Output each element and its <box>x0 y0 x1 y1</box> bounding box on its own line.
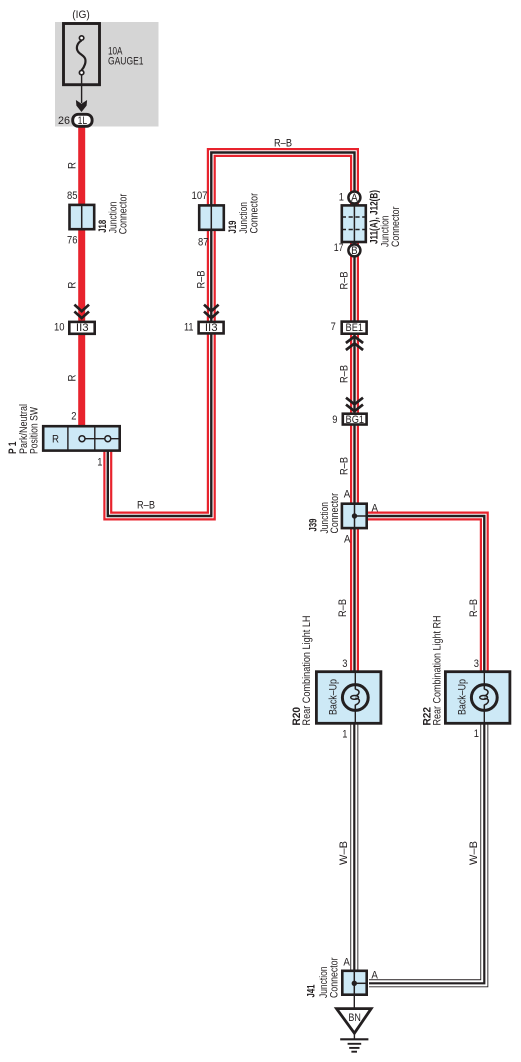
svg-text:A: A <box>343 957 350 969</box>
svg-text:A: A <box>371 970 378 982</box>
back-up bulb LH <box>342 685 368 711</box>
svg-text:1: 1 <box>339 192 344 204</box>
svg-text:85: 85 <box>67 190 78 202</box>
svg-text:3: 3 <box>474 658 479 670</box>
svg-text:R: R <box>66 374 78 381</box>
wire R-B branch: J39 pin A to R22 pin 3 <box>355 516 485 675</box>
svg-text:GAUGE1: GAUGE1 <box>108 56 144 68</box>
svg-text:J39: J39 <box>308 519 320 532</box>
rear combination light RH R22 <box>445 672 510 724</box>
svg-text:R: R <box>52 434 59 446</box>
svg-text:R–B: R–B <box>137 499 155 511</box>
svg-text:R–B: R–B <box>337 599 349 617</box>
svg-text:W–B: W–B <box>338 841 350 865</box>
junction connector J18 <box>70 205 95 229</box>
svg-text:17: 17 <box>334 242 344 254</box>
svg-text:R–B: R–B <box>339 365 351 383</box>
svg-text:87: 87 <box>198 237 209 249</box>
switch contacts P1 <box>79 436 85 442</box>
connector oval 1L <box>73 114 92 126</box>
svg-text:26: 26 <box>58 115 70 127</box>
svg-text:R: R <box>67 282 79 289</box>
svg-text:A: A <box>372 503 379 515</box>
wire W-B: R22 pin 1 to J41 pin A <box>369 722 484 983</box>
svg-text:Connector: Connector <box>248 193 260 234</box>
ground symbol <box>340 1038 368 1040</box>
junction dot J41 <box>352 981 357 986</box>
svg-text:II3: II3 <box>76 322 89 334</box>
chevron arrows into BG1 <box>346 398 363 405</box>
svg-text:A: A <box>344 534 351 546</box>
svg-text:Connector: Connector <box>390 206 402 247</box>
park/neutral position switch P1 <box>43 426 120 450</box>
svg-text:Connector: Connector <box>328 957 340 998</box>
svg-text:Back–Up: Back–Up <box>328 679 340 715</box>
junction dot J39 <box>352 513 357 518</box>
svg-text:II3: II3 <box>205 322 218 334</box>
svg-text:1: 1 <box>97 457 102 469</box>
svg-text:A: A <box>351 192 358 204</box>
svg-text:10: 10 <box>54 322 65 334</box>
svg-text:7: 7 <box>331 321 336 333</box>
wire J41 to ground triangle BN <box>353 995 355 1009</box>
svg-text:BE1: BE1 <box>346 322 364 334</box>
wire R-B: P1 pin 1, bottom run, up through J19 to top run, down through J11 to R20 pin 3 <box>108 153 355 676</box>
svg-text:107: 107 <box>192 190 208 202</box>
svg-text:R: R <box>67 162 79 169</box>
connector circle B J12 <box>348 244 360 256</box>
svg-text:9: 9 <box>332 414 337 426</box>
connector II3 middle <box>199 322 224 334</box>
svg-text:76: 76 <box>67 234 78 246</box>
chevron arrows into II3 pin 10 <box>74 305 89 312</box>
junction connector J11/J12 <box>342 205 366 242</box>
svg-text:R–B: R–B <box>339 272 351 290</box>
wire fuse to connector 1L with arrowhead <box>81 75 83 103</box>
svg-text:1L: 1L <box>78 115 88 127</box>
wire R solid red: fuse 1L to P1 pin 2 <box>78 120 85 427</box>
svg-text:Connector: Connector <box>118 193 130 234</box>
junction connector J19 <box>199 205 224 229</box>
svg-text:2: 2 <box>71 411 76 423</box>
svg-text:A: A <box>344 489 351 501</box>
ground triangle BN <box>337 1009 372 1034</box>
svg-text:R–B: R–B <box>468 599 480 617</box>
rear combination light LH R20 <box>316 672 381 724</box>
svg-text:R–B: R–B <box>196 271 208 289</box>
connector II3 left <box>69 322 94 334</box>
connector BE1 <box>342 322 367 334</box>
svg-text:Position SW: Position SW <box>29 407 41 454</box>
wire triangle to ground <box>353 1033 355 1039</box>
svg-text:Back–Up: Back–Up <box>457 679 469 715</box>
svg-text:BN: BN <box>348 1012 361 1024</box>
ignition source gray block <box>55 22 159 127</box>
svg-text:Rear Combination Light RH: Rear Combination Light RH <box>432 615 444 725</box>
svg-text:W–B: W–B <box>468 841 480 865</box>
back-up bulb RH <box>471 685 497 711</box>
svg-text:BG1: BG1 <box>346 414 365 426</box>
chevron arrows into II3 pin 11 <box>204 305 219 312</box>
svg-text:3: 3 <box>342 658 347 670</box>
svg-text:R–B: R–B <box>274 138 292 150</box>
svg-text:11: 11 <box>184 322 194 334</box>
fuse 10A GAUGE1 <box>64 24 100 85</box>
chevron arrows up out of BE1 <box>346 336 363 343</box>
svg-text:Connector: Connector <box>329 493 341 534</box>
svg-text:B: B <box>351 245 358 257</box>
svg-text:1: 1 <box>474 728 479 740</box>
junction connector J39 <box>342 504 367 528</box>
connector circle A J11 <box>348 192 360 204</box>
connector BG1 <box>343 414 367 425</box>
svg-text:R–B: R–B <box>339 457 351 475</box>
svg-text:J41: J41 <box>306 985 318 998</box>
junction connector J41 <box>342 971 366 995</box>
svg-text:(IG): (IG) <box>72 9 90 21</box>
wire W-B: R20 pin 1 to J41 pin A <box>350 722 358 971</box>
svg-text:Rear Combination Light LH: Rear Combination Light LH <box>301 615 313 725</box>
svg-text:1: 1 <box>342 729 347 741</box>
